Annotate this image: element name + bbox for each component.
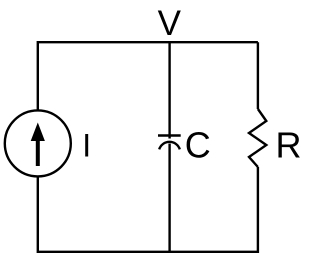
wire top (node V rail) <box>38 41 258 43</box>
capacitor C top plate <box>158 134 181 136</box>
wire middle lower (capacitor to bottom rail) <box>168 144 170 254</box>
resistor R zigzag <box>249 109 266 167</box>
current source arrow <box>31 123 45 167</box>
wire right lower (resistor to bottom rail) <box>257 167 259 253</box>
svg-text:R: R <box>276 125 302 166</box>
wire left lower (current source to bottom rail) <box>37 177 39 254</box>
wire left upper (top rail to current source) <box>37 41 39 111</box>
wire bottom rail <box>38 251 258 253</box>
svg-text:C: C <box>185 124 211 165</box>
svg-text:I: I <box>82 127 91 163</box>
wire right upper (top rail to resistor) <box>257 42 259 109</box>
wire middle upper (top rail to capacitor) <box>168 42 170 138</box>
current source I1 circle <box>5 110 71 176</box>
svg-text:V: V <box>158 4 182 43</box>
capacitor C curved bottom plate <box>159 142 180 150</box>
